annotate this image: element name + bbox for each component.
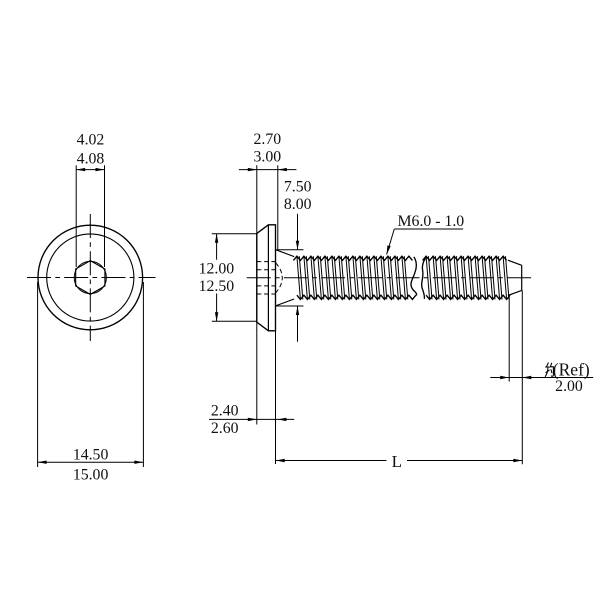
svg-text:14.50: 14.50 xyxy=(73,447,109,464)
svg-text:2.40: 2.40 xyxy=(211,402,239,419)
svg-text:12.00: 12.00 xyxy=(199,261,235,278)
svg-text:2.00: 2.00 xyxy=(555,378,583,395)
svg-text:7.50: 7.50 xyxy=(284,179,312,196)
svg-text:M6.0 - 1.0: M6.0 - 1.0 xyxy=(398,213,465,230)
svg-text:12.50: 12.50 xyxy=(199,278,235,295)
svg-text:4.02: 4.02 xyxy=(77,131,105,148)
svg-text:4.08: 4.08 xyxy=(77,151,105,168)
svg-text:2.70: 2.70 xyxy=(253,131,281,148)
svg-text:15.00: 15.00 xyxy=(73,466,109,483)
svg-text:2.60: 2.60 xyxy=(211,420,239,437)
svg-text:L: L xyxy=(392,452,402,471)
svg-text:3.00: 3.00 xyxy=(253,149,281,166)
svg-text:(Ref): (Ref) xyxy=(553,360,590,380)
svg-text:8.00: 8.00 xyxy=(284,196,312,213)
